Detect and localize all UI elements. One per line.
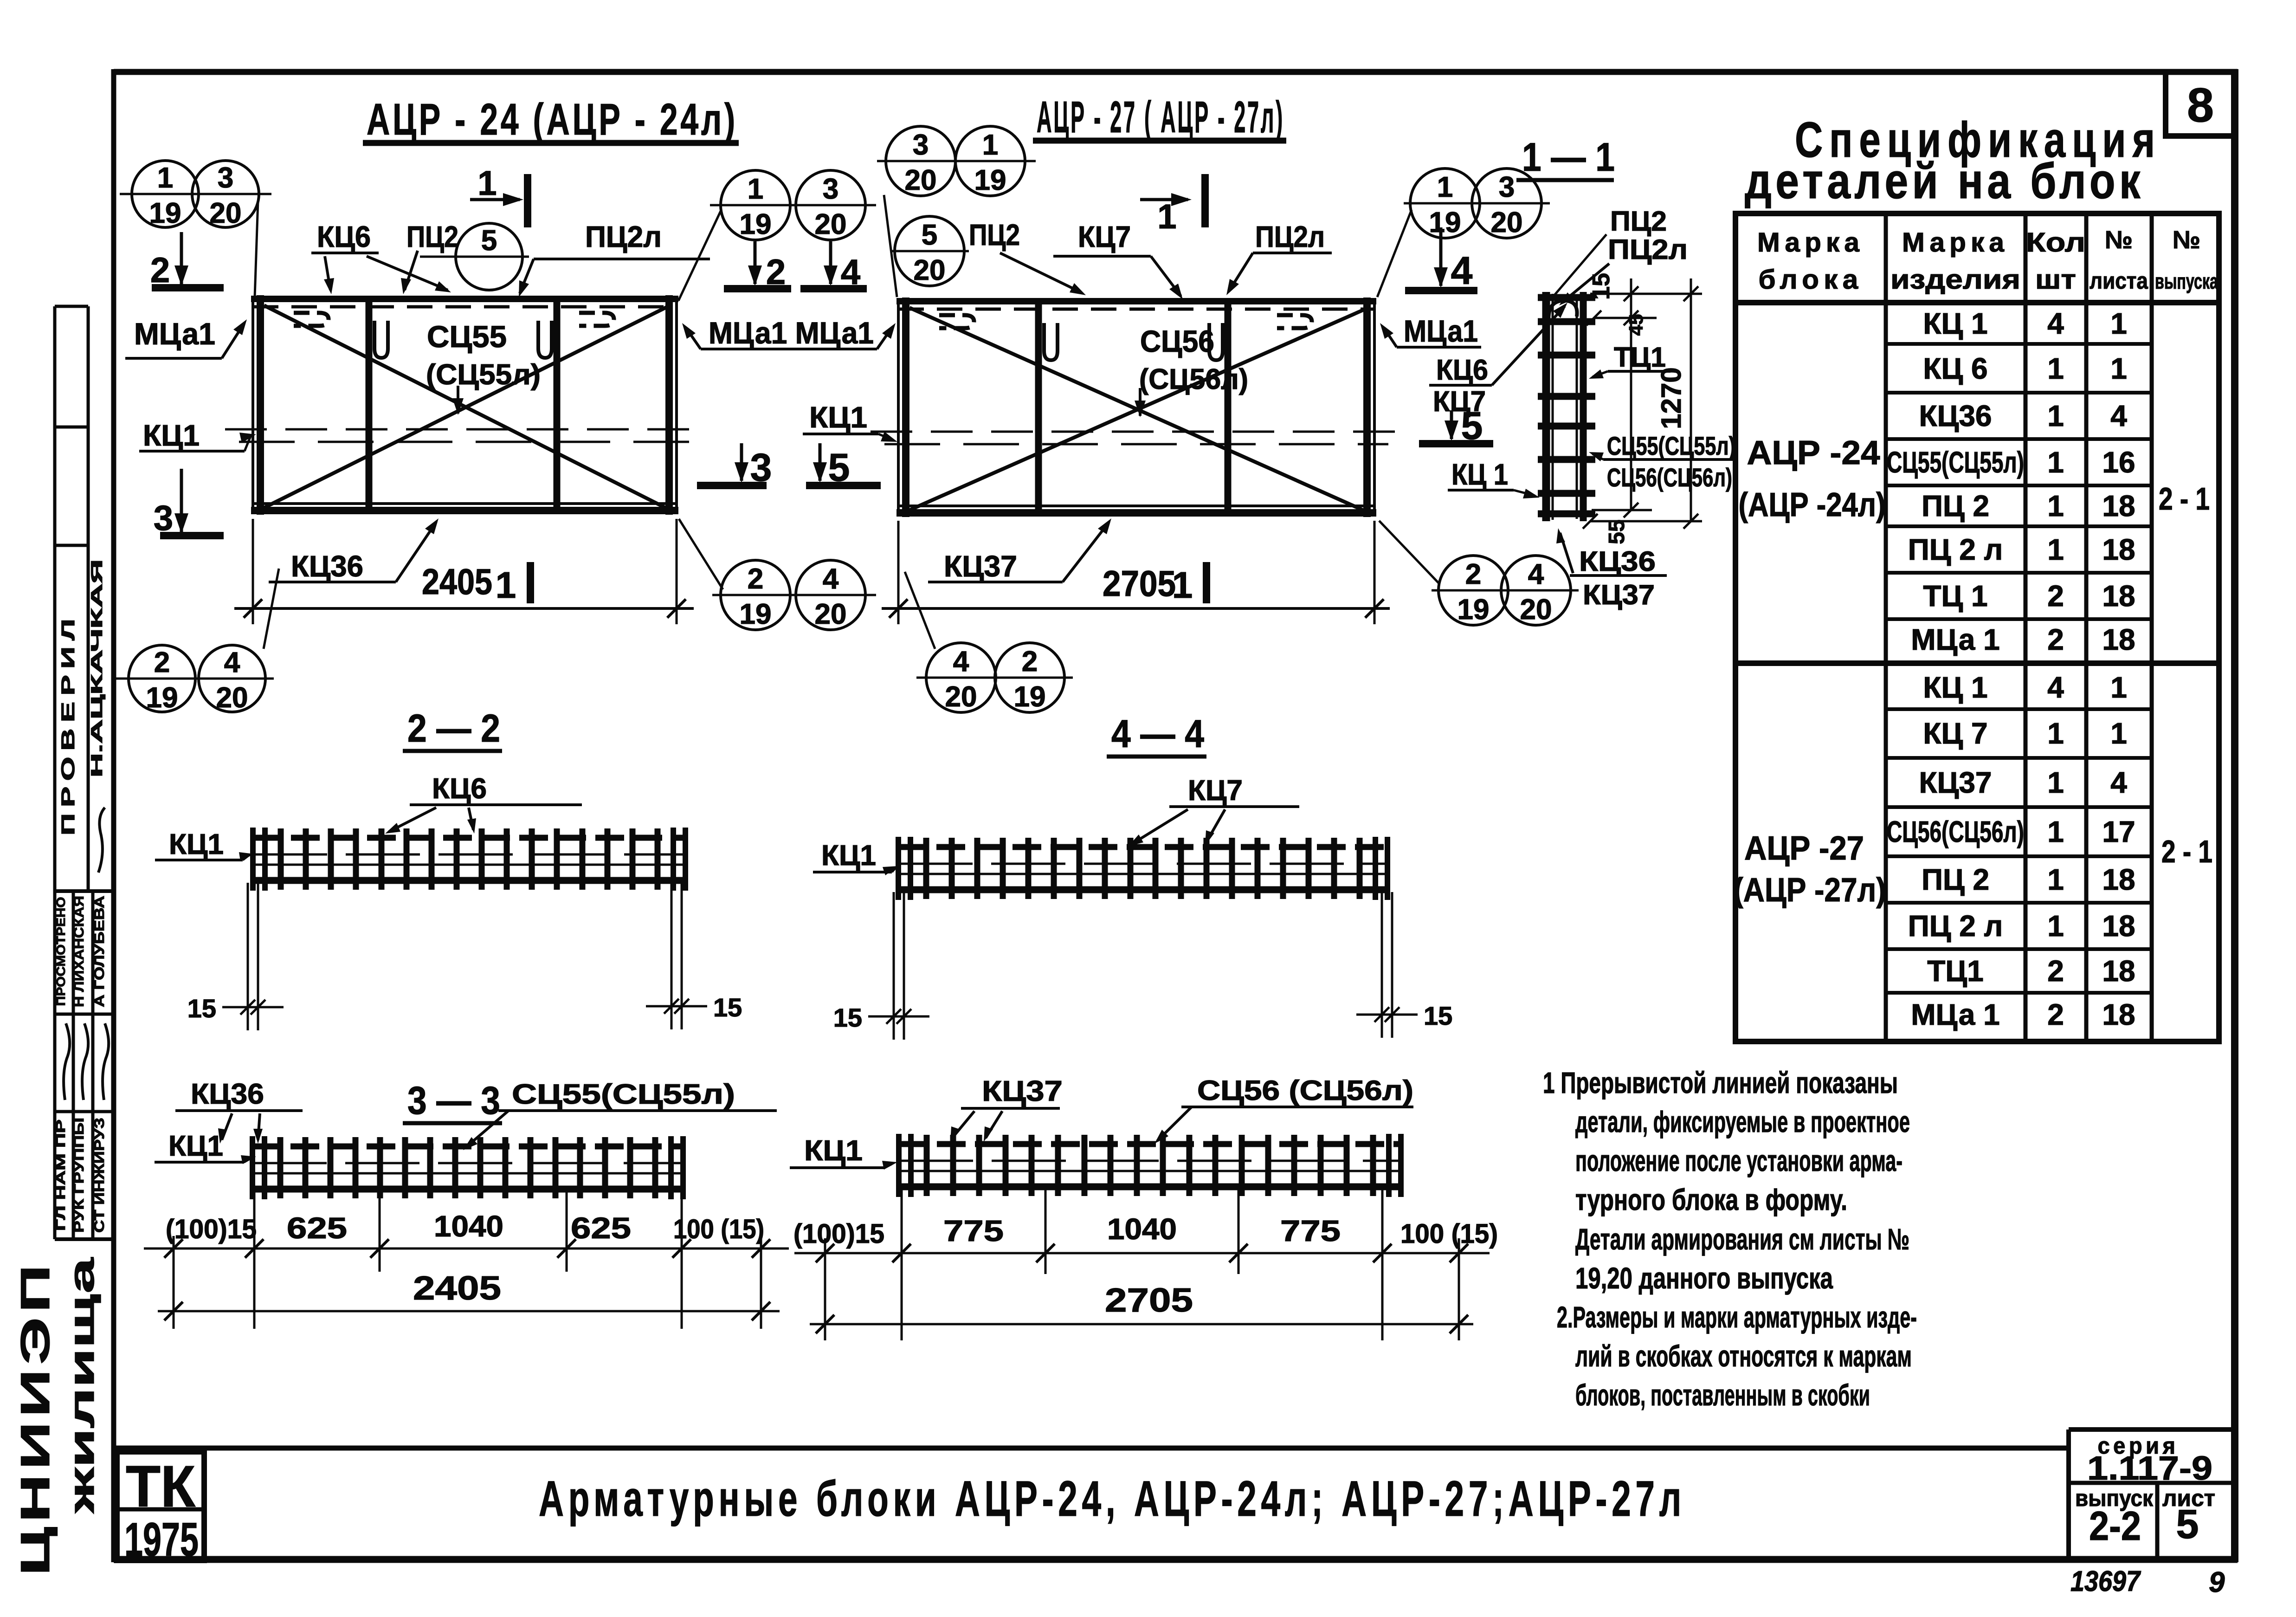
section markers 2 and 4 gutter xyxy=(754,241,757,284)
svg-text:1: 1 xyxy=(982,129,998,161)
seriya box xyxy=(2069,1427,2235,1432)
svg-text:ТЦ1: ТЦ1 xyxy=(1927,954,1983,988)
svg-text:(АЦР -27л): (АЦР -27л) xyxy=(1734,872,1886,909)
svg-text:20: 20 xyxy=(945,681,977,713)
svg-text:2: 2 xyxy=(1465,558,1481,590)
svg-text:4: 4 xyxy=(2110,766,2127,799)
svg-text:4: 4 xyxy=(2047,671,2064,704)
svg-text:КЦ1: КЦ1 xyxy=(169,828,224,860)
svg-text:15: 15 xyxy=(833,1003,862,1032)
svg-text:4: 4 xyxy=(1528,558,1544,590)
svg-text:МЦа1 МЦа1: МЦа1 МЦа1 xyxy=(709,316,874,350)
section marker 2 xyxy=(180,232,183,285)
svg-text:КЦ7: КЦ7 xyxy=(1188,775,1243,807)
page number box 8 xyxy=(2166,72,2234,136)
block ACR-27 elevation xyxy=(897,298,900,515)
circle 3/20 xyxy=(796,170,865,240)
bar section 2-2 xyxy=(253,835,685,841)
svg-text:20: 20 xyxy=(914,254,946,286)
svg-text:КЦ 6: КЦ 6 xyxy=(1923,352,1987,385)
svg-text:15: 15 xyxy=(713,993,742,1022)
svg-text:2: 2 xyxy=(748,563,763,595)
svg-text:18: 18 xyxy=(2102,909,2135,943)
svg-text:2: 2 xyxy=(2047,579,2064,613)
spec table grid xyxy=(1735,213,2219,1041)
svg-text:№: № xyxy=(2105,226,2133,254)
svg-text:СЦ56: СЦ56 xyxy=(1140,324,1214,358)
dim 15 right 4-4 xyxy=(1381,892,1383,1038)
ladder dimension lines xyxy=(1630,278,1632,510)
svg-text:АЦР - 27 ( АЦР - 27л): АЦР - 27 ( АЦР - 27л) xyxy=(1037,92,1284,142)
svg-text:4: 4 xyxy=(953,646,969,678)
dim 15 left 2-2 xyxy=(247,883,249,1030)
svg-text:3: 3 xyxy=(1499,171,1515,203)
svg-text:ТЦ 1: ТЦ 1 xyxy=(1923,579,1987,613)
dims under 3-3 left xyxy=(173,1236,175,1329)
svg-text:А ГОЛУБЕВА: А ГОЛУБЕВА xyxy=(92,896,107,1007)
svg-text:55: 55 xyxy=(1605,519,1629,544)
svg-text:КЦ36: КЦ36 xyxy=(191,1078,264,1110)
svg-text:2.Размеры и марки арматурных и: 2.Размеры и марки арматурных изде- xyxy=(1557,1300,1917,1334)
svg-text:2405: 2405 xyxy=(422,561,492,602)
svg-text:625: 625 xyxy=(287,1211,347,1245)
svg-text:СЦ55(СЦ55л): СЦ55(СЦ55л) xyxy=(1607,431,1735,460)
svg-text:(АЦР -24л): (АЦР -24л) xyxy=(1739,486,1886,524)
svg-text:1040: 1040 xyxy=(1107,1212,1177,1246)
circle 2/19 xyxy=(721,560,790,630)
svg-text:18: 18 xyxy=(2102,533,2135,566)
svg-text:ПРОВЕРИЛ: ПРОВЕРИЛ xyxy=(58,613,78,835)
dim 15 left 4-4 xyxy=(893,892,895,1040)
svg-text:1: 1 xyxy=(2047,352,2064,385)
svg-text:изделия: изделия xyxy=(1890,265,2020,295)
svg-text:КЦ1: КЦ1 xyxy=(168,1130,223,1162)
svg-text:(СЦ56л): (СЦ56л) xyxy=(1139,363,1248,395)
svg-text:2705: 2705 xyxy=(1105,1282,1193,1319)
svg-text:8: 8 xyxy=(2187,78,2214,132)
svg-text:КЦ1: КЦ1 xyxy=(804,1135,863,1167)
svg-text:ТК: ТК xyxy=(126,1454,196,1519)
circle 1/19 xyxy=(1410,168,1480,238)
svg-text:2405: 2405 xyxy=(413,1270,501,1307)
svg-text:19: 19 xyxy=(1014,681,1046,713)
svg-text:18: 18 xyxy=(2102,998,2135,1031)
svg-text:2: 2 xyxy=(1022,646,1038,678)
svg-text:2 - 1: 2 - 1 xyxy=(2161,834,2212,869)
svg-text:ПЦ2: ПЦ2 xyxy=(1610,206,1667,237)
svg-text:АЦР -24: АЦР -24 xyxy=(1747,434,1880,472)
svg-text:КЦ37: КЦ37 xyxy=(944,550,1017,583)
circle 2/19 xyxy=(1438,556,1508,625)
circle 3/20 xyxy=(192,161,259,227)
block ACR-24 elevation xyxy=(252,296,254,513)
svg-text:СЦ56(СЦ56л): СЦ56(СЦ56л) xyxy=(1607,463,1732,492)
circle 1/19 xyxy=(955,126,1025,196)
svg-text:15: 15 xyxy=(187,994,216,1023)
svg-text:КЦ 7: КЦ 7 xyxy=(1923,717,1987,750)
svg-text:КЦ37: КЦ37 xyxy=(982,1075,1063,1107)
svg-text:18: 18 xyxy=(2102,863,2135,896)
svg-text:16: 16 xyxy=(2102,446,2135,479)
svg-text:деталей на блок: деталей на блок xyxy=(1745,153,2144,209)
svg-text:100 (15): 100 (15) xyxy=(1400,1219,1498,1249)
svg-text:4: 4 xyxy=(1451,249,1473,292)
svg-text:18: 18 xyxy=(2102,579,2135,613)
svg-text:20: 20 xyxy=(1520,594,1552,626)
left stamp column xyxy=(53,306,57,1239)
svg-text:РУК ГРУППЫ: РУК ГРУППЫ xyxy=(71,1118,87,1233)
svg-text:блоков, поставленным в скобки: блоков, поставленным в скобки xyxy=(1575,1378,1870,1412)
svg-text:19: 19 xyxy=(740,598,772,630)
svg-text:1 — 1: 1 — 1 xyxy=(1522,135,1615,180)
svg-text:20: 20 xyxy=(216,682,248,714)
svg-text:18: 18 xyxy=(2102,623,2135,656)
circle 3/20 xyxy=(1472,168,1541,238)
svg-text:20: 20 xyxy=(815,598,847,630)
title block xyxy=(114,1446,2070,1451)
callout circle 5 xyxy=(456,223,522,290)
svg-text:1975: 1975 xyxy=(124,1513,199,1566)
svg-text:СЦ55(СЦ55л): СЦ55(СЦ55л) xyxy=(512,1079,735,1110)
svg-text:17: 17 xyxy=(2102,815,2135,848)
svg-text:КЦ1: КЦ1 xyxy=(821,840,876,872)
svg-text:(СЦ55л): (СЦ55л) xyxy=(426,359,541,391)
circle 2/19 xyxy=(995,643,1064,712)
svg-text:19: 19 xyxy=(1458,594,1490,626)
svg-text:КЦ37: КЦ37 xyxy=(1919,766,1992,799)
svg-text:20: 20 xyxy=(815,208,847,240)
svg-text:Марка: Марка xyxy=(1757,227,1864,258)
svg-text:4: 4 xyxy=(224,647,240,679)
svg-text:(100)15: (100)15 xyxy=(793,1219,884,1249)
svg-text:1: 1 xyxy=(2110,717,2127,750)
svg-text:КЦ6: КЦ6 xyxy=(432,773,487,805)
svg-text:1: 1 xyxy=(2047,399,2064,433)
svg-text:4: 4 xyxy=(823,563,839,595)
svg-text:Детали армирования см листы №: Детали армирования см листы № xyxy=(1575,1222,1909,1256)
svg-text:19: 19 xyxy=(149,197,181,229)
svg-text:СЦ56 (СЦ56л): СЦ56 (СЦ56л) xyxy=(1197,1075,1413,1106)
svg-text:15: 15 xyxy=(1424,1001,1452,1030)
svg-text:СТ ИНЖИРУЗ: СТ ИНЖИРУЗ xyxy=(92,1118,107,1233)
svg-text:1: 1 xyxy=(2110,671,2127,704)
circle 4/20 xyxy=(199,645,265,712)
svg-text:5: 5 xyxy=(481,225,497,257)
svg-text:1: 1 xyxy=(2047,815,2064,848)
svg-text:шт: шт xyxy=(2035,265,2076,295)
svg-text:1: 1 xyxy=(1172,564,1193,606)
ladder detail (vertical block cross-section) xyxy=(1542,292,1550,521)
dim 2405 under block1 xyxy=(252,519,254,624)
svg-text:ПЦ 2 л: ПЦ 2 л xyxy=(1908,909,2003,943)
svg-text:3: 3 xyxy=(218,162,233,194)
dim 2705 under block2 xyxy=(897,521,900,624)
svg-text:1: 1 xyxy=(2110,352,2127,385)
svg-text:КЦ36: КЦ36 xyxy=(1579,546,1656,577)
svg-text:КЦ1: КЦ1 xyxy=(809,401,867,434)
svg-text:КЦ 1: КЦ 1 xyxy=(1923,307,1987,340)
svg-text:СЦ56(СЦ56л): СЦ56(СЦ56л) xyxy=(1887,815,2024,848)
svg-text:КЦ7: КЦ7 xyxy=(1078,220,1131,253)
svg-text:1: 1 xyxy=(2047,717,2064,750)
svg-text:ПЦ 2: ПЦ 2 xyxy=(1922,863,1989,896)
svg-text:КЦ37: КЦ37 xyxy=(1583,579,1655,610)
svg-text:жилища: жилища xyxy=(62,1257,102,1514)
svg-text:19,20 данного выпуска: 19,20 данного выпуска xyxy=(1575,1261,1833,1295)
circle 2/19 xyxy=(129,645,195,712)
svg-text:1: 1 xyxy=(1437,171,1453,203)
svg-text:1: 1 xyxy=(2047,863,2064,896)
svg-text:листа: листа xyxy=(2090,268,2148,294)
bar section 3-3 left xyxy=(252,1144,683,1150)
svg-text:ПЦ2л: ПЦ2л xyxy=(1608,234,1688,265)
svg-text:1: 1 xyxy=(2047,489,2064,523)
svg-text:1: 1 xyxy=(2047,533,2064,566)
svg-text:625: 625 xyxy=(571,1211,631,1245)
svg-text:19: 19 xyxy=(146,682,178,714)
svg-text:2-2: 2-2 xyxy=(2089,1503,2141,1549)
svg-text:КЦ6: КЦ6 xyxy=(1436,354,1488,386)
svg-text:1: 1 xyxy=(2110,307,2127,340)
svg-text:КЦ36: КЦ36 xyxy=(291,550,363,583)
svg-text:775: 775 xyxy=(943,1214,1004,1248)
svg-text:ГЛ НАМ ПР: ГЛ НАМ ПР xyxy=(53,1119,68,1231)
bar section 3-3 right xyxy=(899,1141,1401,1147)
svg-text:18: 18 xyxy=(2102,489,2135,523)
section markers 3 and 5 gutter xyxy=(740,443,743,481)
TK stamp box xyxy=(117,1452,204,1560)
svg-text:3: 3 xyxy=(823,173,838,205)
svg-text:ПЦ2: ПЦ2 xyxy=(969,218,1020,252)
section marker 3 xyxy=(180,469,183,533)
svg-text:КЦ 1: КЦ 1 xyxy=(1451,458,1508,491)
svg-text:19: 19 xyxy=(740,208,772,240)
svg-text:№: № xyxy=(2173,226,2200,254)
svg-text:МЦа1: МЦа1 xyxy=(1404,314,1478,348)
svg-text:ПЦ 2 л: ПЦ 2 л xyxy=(1908,533,2003,566)
svg-text:1: 1 xyxy=(2047,909,2064,943)
svg-text:МЦа 1: МЦа 1 xyxy=(1911,623,1999,656)
bar section 4-4 xyxy=(898,844,1387,850)
svg-text:положение после установки арм: положение после установки арма- xyxy=(1575,1144,1903,1177)
svg-text:45: 45 xyxy=(1625,314,1647,336)
svg-text:Марка: Марка xyxy=(1902,227,2009,258)
svg-text:5: 5 xyxy=(922,219,937,251)
svg-text:МЦа1: МЦа1 xyxy=(134,317,215,351)
svg-text:ПЦ2: ПЦ2 xyxy=(406,220,458,253)
svg-text:2 — 2: 2 — 2 xyxy=(407,706,500,750)
svg-text:2: 2 xyxy=(2047,998,2064,1031)
svg-text:Н.АЦКАЧКАЯ: Н.АЦКАЧКАЯ xyxy=(88,559,106,777)
svg-text:Кол: Кол xyxy=(2026,227,2085,258)
svg-text:ЦНИИЭП: ЦНИИЭП xyxy=(12,1260,58,1576)
svg-text:1: 1 xyxy=(477,164,497,202)
svg-text:4: 4 xyxy=(2110,399,2127,433)
svg-text:СЦ55: СЦ55 xyxy=(427,319,507,354)
svg-text:КЦ36: КЦ36 xyxy=(1919,399,1992,433)
svg-text:выпуска: выпуска xyxy=(2155,269,2218,293)
svg-text:Н ЛИХАНСКАЯ: Н ЛИХАНСКАЯ xyxy=(71,896,87,1007)
svg-text:турного блока в форму.: турного блока в форму. xyxy=(1575,1183,1847,1216)
svg-text:3: 3 xyxy=(913,129,929,161)
svg-text:13697: 13697 xyxy=(2070,1565,2141,1598)
svg-text:КЦ 1: КЦ 1 xyxy=(1923,671,1987,704)
svg-text:20: 20 xyxy=(905,164,937,196)
svg-text:5: 5 xyxy=(2176,1501,2199,1547)
svg-text:1040: 1040 xyxy=(434,1210,503,1243)
svg-text:ПЦ2л: ПЦ2л xyxy=(585,220,662,253)
svg-text:детали, фиксируемые в проектно: детали, фиксируемые в проектное xyxy=(1575,1105,1910,1138)
circle 4/20 xyxy=(796,560,865,630)
svg-text:2: 2 xyxy=(2047,954,2064,988)
svg-text:ПЦ2л: ПЦ2л xyxy=(1255,220,1325,253)
svg-text:1: 1 xyxy=(496,564,516,606)
svg-text:19: 19 xyxy=(1429,207,1461,239)
svg-text:ПРОСМОТРЕНО: ПРОСМОТРЕНО xyxy=(54,897,68,1006)
svg-text:2: 2 xyxy=(154,647,170,679)
svg-text:(100)15: (100)15 xyxy=(166,1214,257,1244)
circle 5/20 xyxy=(895,216,964,286)
circle 4/20 xyxy=(926,643,996,712)
svg-text:1: 1 xyxy=(2047,766,2064,799)
circle 4/20 xyxy=(1501,556,1571,625)
circle 1/19 xyxy=(721,170,790,240)
circle 1/19 xyxy=(132,161,199,227)
svg-text:20: 20 xyxy=(210,197,242,229)
svg-text:лий в скобках относятся к марк: лий в скобках относятся к маркам xyxy=(1575,1339,1912,1373)
svg-text:9: 9 xyxy=(2209,1566,2225,1598)
svg-text:2705: 2705 xyxy=(1103,563,1176,604)
svg-text:блока: блока xyxy=(1759,265,1863,295)
svg-text:3 — 3: 3 — 3 xyxy=(407,1079,500,1122)
svg-text:АЦР -27: АЦР -27 xyxy=(1744,830,1864,867)
svg-text:2 - 1: 2 - 1 xyxy=(2159,481,2210,517)
svg-text:ТЦ1: ТЦ1 xyxy=(1614,342,1666,373)
svg-text:1.117-9: 1.117-9 xyxy=(2087,1450,2212,1487)
svg-text:1: 1 xyxy=(748,173,763,205)
svg-text:1: 1 xyxy=(2047,446,2064,479)
svg-text:19: 19 xyxy=(974,164,1006,196)
svg-text:СЦ55(СЦ55л): СЦ55(СЦ55л) xyxy=(1887,446,2024,479)
svg-text:1270: 1270 xyxy=(1656,367,1687,429)
svg-text:АЦР - 24 (АЦР - 24л): АЦР - 24 (АЦР - 24л) xyxy=(367,95,738,144)
svg-text:775: 775 xyxy=(1280,1214,1341,1248)
svg-text:КЦ6: КЦ6 xyxy=(317,220,371,253)
dims under 3-3 right xyxy=(824,1238,826,1340)
svg-text:ПЦ 2: ПЦ 2 xyxy=(1922,489,1989,523)
svg-text:100 (15): 100 (15) xyxy=(673,1214,764,1244)
svg-text:Арматурные блоки АЦР-24, АЦ: Арматурные блоки АЦР-24, АЦР-24л; АЦР-27… xyxy=(539,1470,1686,1526)
svg-text:20: 20 xyxy=(1491,207,1523,239)
frame border xyxy=(114,69,2238,75)
svg-text:2: 2 xyxy=(2047,623,2064,656)
svg-text:18: 18 xyxy=(2102,954,2135,988)
svg-text:МЦа 1: МЦа 1 xyxy=(1911,998,1999,1031)
svg-text:4: 4 xyxy=(2047,307,2064,340)
dim 15 right 2-2 xyxy=(671,883,673,1029)
svg-text:4 — 4: 4 — 4 xyxy=(1111,712,1204,756)
svg-text:1 Прерывистой линией показан: 1 Прерывистой линией показаны xyxy=(1543,1066,1898,1100)
svg-text:1: 1 xyxy=(157,162,173,194)
svg-text:КЦ1: КЦ1 xyxy=(143,419,200,452)
circle 3/20 xyxy=(886,126,955,196)
